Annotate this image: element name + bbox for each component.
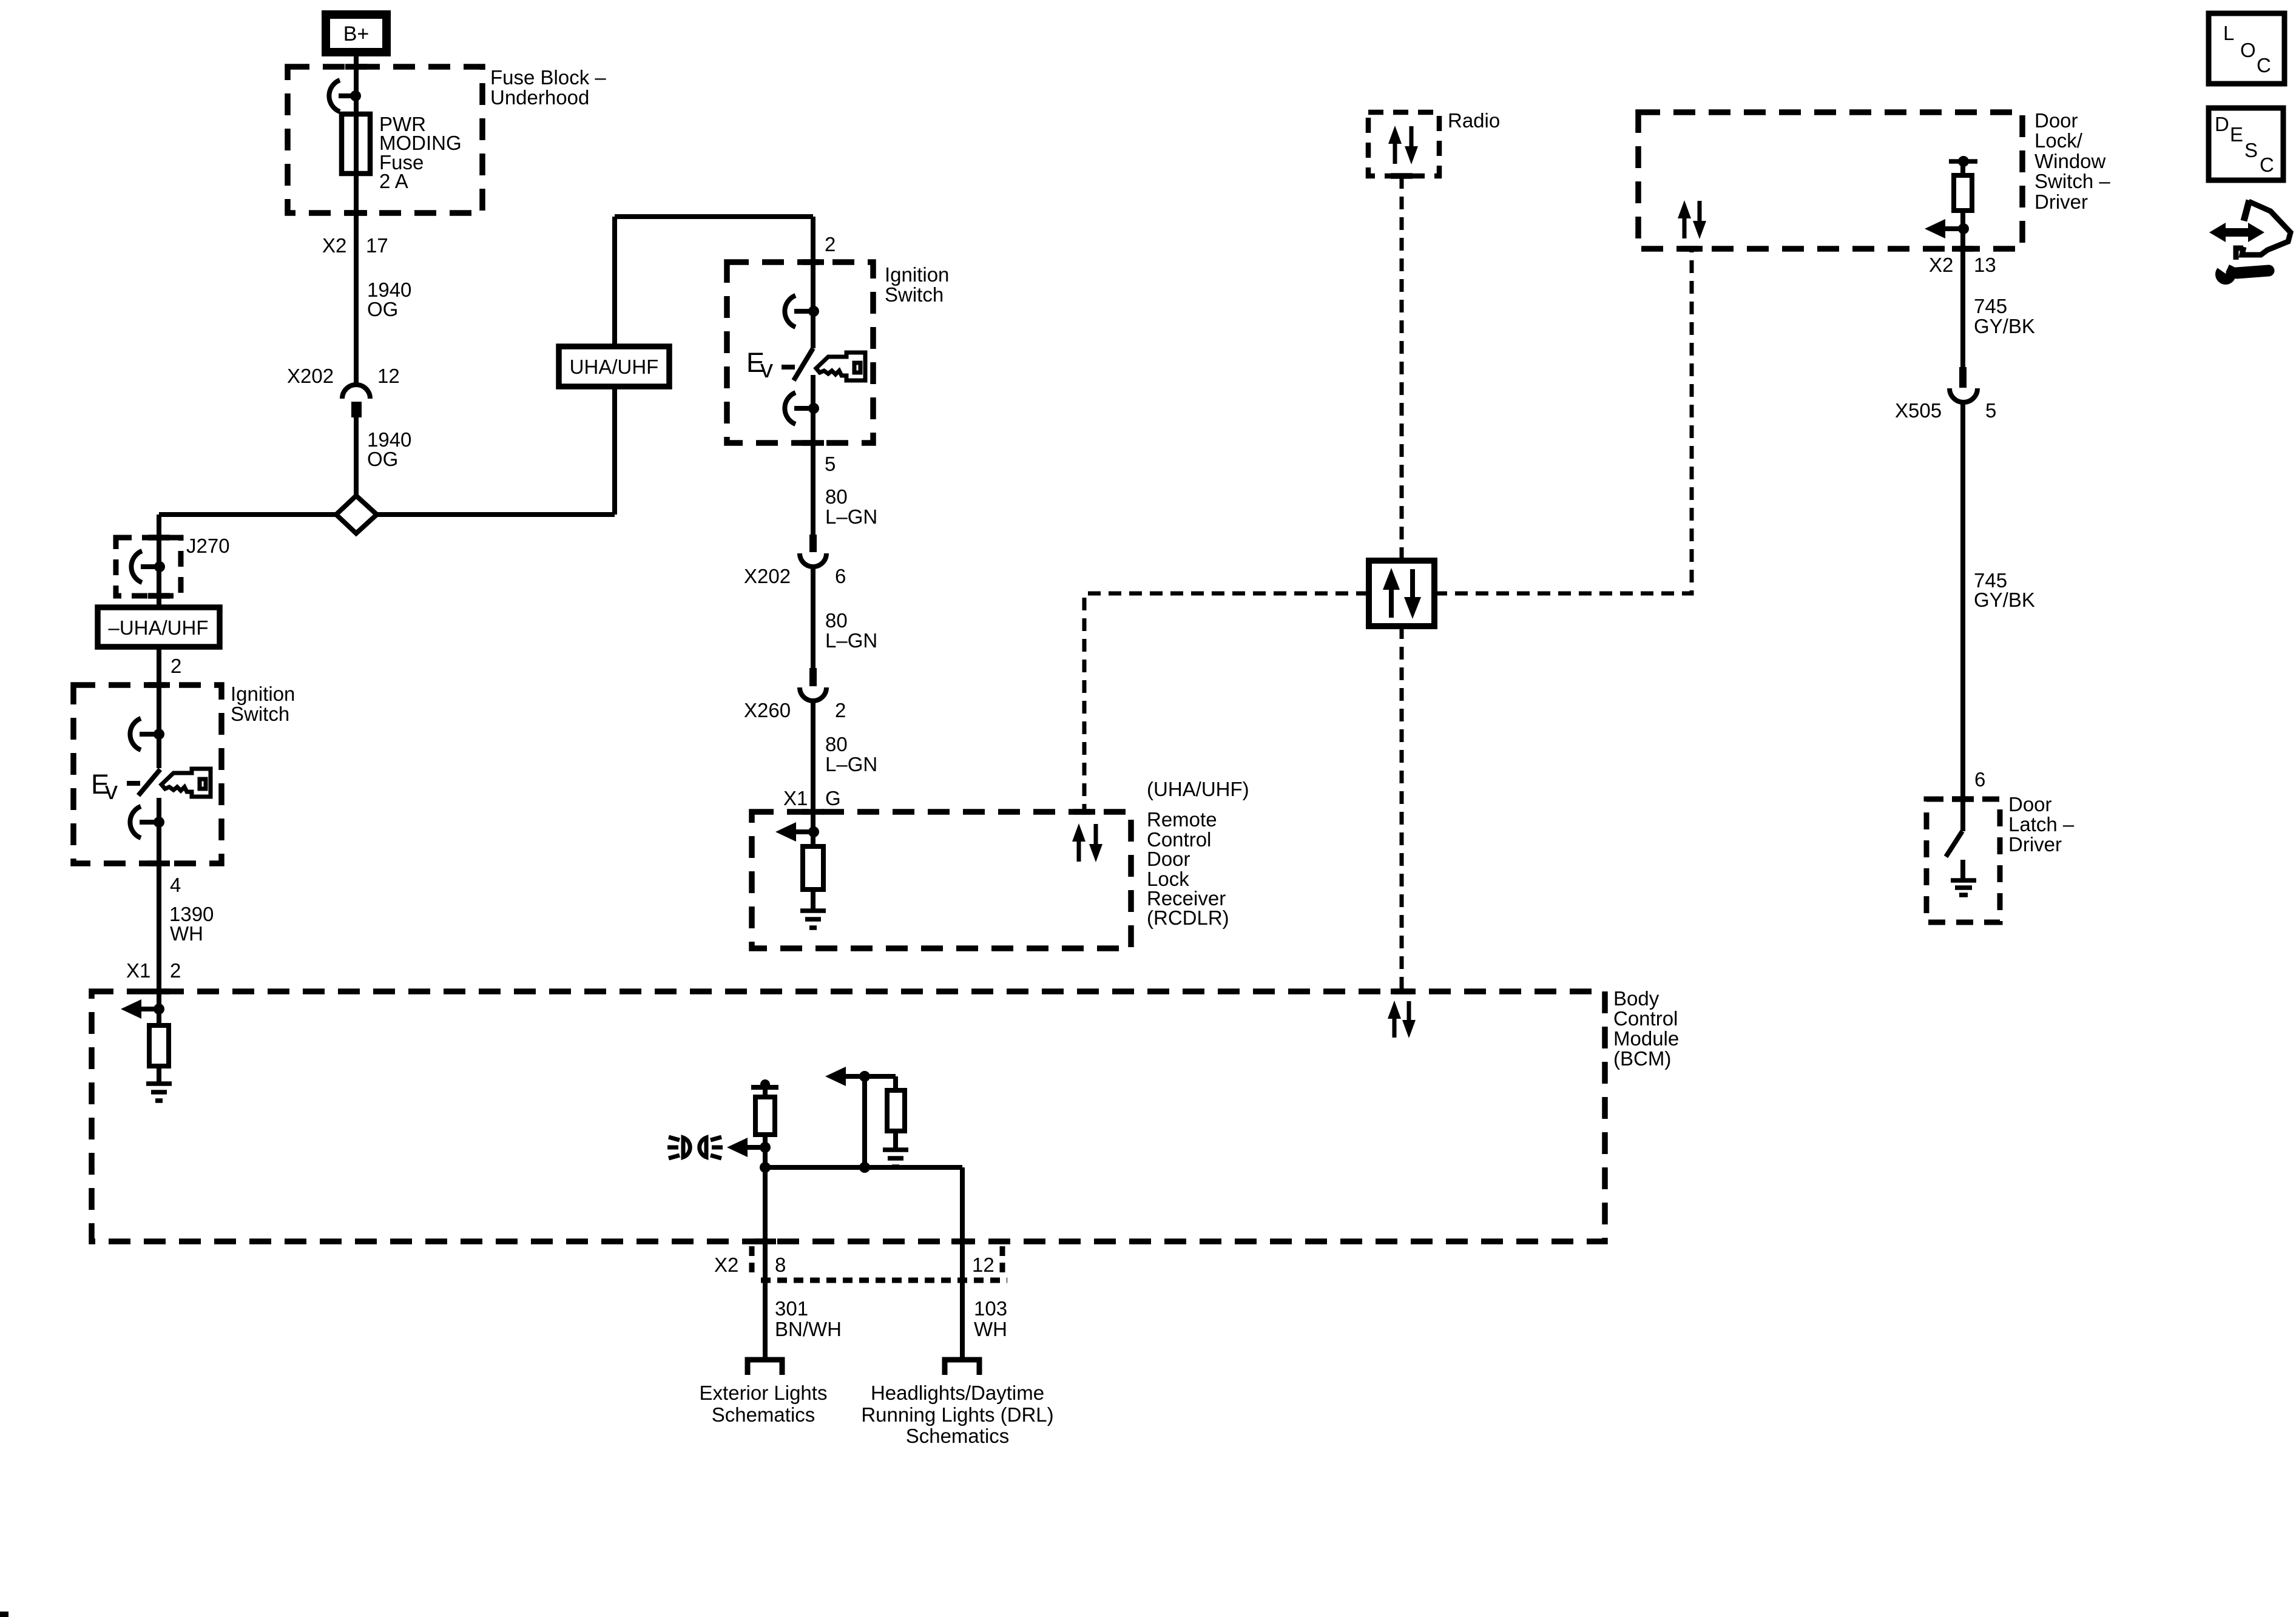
wire ignition 5 to X202 [811, 375, 815, 535]
svg-text:Door: Door [2034, 109, 2078, 132]
svg-text:WH: WH [170, 922, 203, 945]
door latch driver box [1926, 799, 2000, 922]
junction dot ignition right top [808, 306, 819, 317]
svg-text:5: 5 [1985, 399, 1996, 422]
wire ground branch top [865, 1074, 896, 1079]
wire serial hub to BCM [1400, 626, 1404, 991]
svg-text:GY/BK: GY/BK [1974, 589, 2035, 611]
bus junction dot at ground branch [859, 1162, 870, 1173]
svg-text:v: v [105, 776, 118, 805]
wire pin 8 drop [763, 1167, 768, 1359]
wire ground branch vertical [862, 1076, 867, 1167]
connector X260 pin 2 inline [809, 668, 817, 686]
svg-text:17: 17 [366, 234, 388, 257]
svg-text:L–GN: L–GN [825, 753, 877, 775]
svg-text:4: 4 [170, 874, 181, 896]
UHA/UHF option box [559, 346, 669, 387]
BCM X1-2 arrow [121, 999, 159, 1019]
Ev dash ignition left [127, 781, 140, 786]
radio box [1368, 112, 1439, 176]
svg-text:(RCDLR): (RCDLR) [1147, 906, 1229, 929]
connector X202 pin 12 inline (female above male) [342, 385, 370, 399]
wire X505 to door latch [1960, 401, 1965, 831]
terminal clip ignition right top [785, 295, 813, 327]
wire RCDLR resistor to ground [811, 890, 815, 910]
wire door lock switch to X505 [1960, 211, 1965, 367]
bulb branch resistor [755, 1097, 775, 1135]
wire serial hub to RCDLR [1084, 593, 1369, 812]
B+ power box [326, 15, 387, 52]
junction dot ignition right bottom [808, 403, 819, 414]
RCDLR internal arrow [775, 822, 814, 842]
svg-text:Radio: Radio [1448, 109, 1500, 132]
svg-text:301: 301 [775, 1297, 808, 1320]
ground branch resistor [887, 1090, 905, 1131]
svg-text:O: O [2240, 39, 2256, 61]
wire into right ignition switch [811, 217, 815, 348]
body control module box [92, 991, 1605, 1241]
ground branch ground symbol [883, 1150, 908, 1167]
svg-text:2: 2 [171, 655, 181, 677]
terminal clip in fuse block [329, 80, 356, 112]
svg-text:X505: X505 [1895, 399, 1942, 422]
svg-text:Remote: Remote [1147, 808, 1217, 831]
bulb branch junction dot [760, 1142, 771, 1153]
minus UHA/UHF option box [98, 607, 220, 647]
bulb branch top terminal dot [760, 1079, 770, 1089]
svg-text:WH: WH [974, 1318, 1007, 1340]
svg-text:OG: OG [367, 448, 398, 470]
svg-text:X260: X260 [744, 699, 791, 721]
wire door latch blade [1946, 831, 1962, 857]
svg-text:Switch: Switch [231, 703, 289, 725]
svg-text:2: 2 [825, 233, 836, 255]
door lock window switch driver box [1638, 112, 2022, 249]
svg-text:E: E [2230, 123, 2243, 146]
svg-text:B+: B+ [343, 22, 370, 46]
svg-text:Driver: Driver [2034, 191, 2088, 213]
wire B+ to fuse block [354, 55, 359, 385]
dashed component boxes [73, 67, 2022, 1241]
wire door latch ground stub [1960, 860, 1965, 879]
connector X505 pin 5 inline [1959, 367, 1967, 388]
junction dot fuse clip [350, 90, 361, 101]
door lock switch arrow [1925, 219, 1963, 238]
svg-text:Module: Module [1613, 1027, 1679, 1050]
svg-text:J270: J270 [186, 535, 230, 557]
svg-text:L–GN: L–GN [825, 629, 877, 652]
svg-text:OG: OG [367, 298, 398, 320]
RCDLR internal resistor [803, 846, 823, 890]
svg-text:6: 6 [1974, 768, 1985, 791]
svg-text:2: 2 [835, 699, 846, 721]
RCDLR ground [800, 911, 826, 928]
svg-text:Driver: Driver [2008, 833, 2062, 856]
fuse PWR MODING 2A [342, 114, 370, 174]
svg-text:BN/WH: BN/WH [775, 1318, 842, 1340]
off-page connector exterior lights [748, 1360, 782, 1375]
Ev dash ignition right [782, 365, 795, 370]
svg-text:Schematics: Schematics [712, 1403, 815, 1426]
ignition switch box (left) [73, 685, 221, 863]
BCM left ground [146, 1084, 172, 1101]
BCM X1-2 junction dot [154, 1004, 164, 1014]
svg-text:X202: X202 [744, 565, 791, 587]
svg-text:2: 2 [170, 959, 181, 982]
svg-text:103: 103 [974, 1297, 1007, 1320]
svg-text:80: 80 [825, 609, 848, 632]
junction dot ignition left bottom [154, 817, 164, 828]
wire horizontal bus through diamond [159, 512, 615, 517]
svg-text:Lock/: Lock/ [2034, 129, 2083, 152]
terminal clip J270 [131, 551, 159, 582]
svg-text:Window: Window [2034, 150, 2106, 172]
svg-text:v: v [760, 354, 773, 383]
off-page connector headlights DRL [945, 1360, 979, 1375]
wire pin 12 drop [960, 1167, 965, 1359]
svg-text:X2: X2 [322, 234, 346, 257]
svg-text:–UHA/UHF: –UHA/UHF [108, 616, 208, 639]
svg-text:5: 5 [825, 453, 836, 475]
wire bulb branch vertical [763, 1087, 768, 1167]
svg-text:GY/BK: GY/BK [1974, 315, 2035, 337]
wire serial radio drop [1400, 176, 1404, 561]
svg-text:Ignition: Ignition [231, 683, 295, 705]
svg-text:UHA/UHF: UHA/UHF [570, 356, 659, 378]
wire bulb branch top terminal [751, 1085, 778, 1090]
bus junction dot at bulb drop [760, 1162, 771, 1173]
svg-text:80: 80 [825, 733, 848, 755]
ignition switch box (right) [727, 262, 873, 443]
svg-text:8: 8 [775, 1254, 786, 1276]
wire BCM output bus [765, 1165, 962, 1170]
svg-text:Exterior Lights: Exterior Lights [700, 1382, 828, 1404]
svg-text:Fuse Block –: Fuse Block – [490, 66, 606, 89]
wire door lock switch resistor branch [1960, 161, 1965, 175]
wire ground branch resistor to ground [893, 1131, 898, 1149]
J270 splice pack box [116, 538, 181, 596]
edge tick marks where wires cross dashed borders [148, 67, 1974, 1241]
svg-text:Latch –: Latch – [2008, 813, 2075, 836]
svg-text:Switch: Switch [885, 283, 944, 306]
svg-text:L: L [2223, 22, 2234, 44]
svg-text:Control: Control [1613, 1007, 1678, 1030]
svg-text:D: D [2215, 113, 2229, 135]
wire ignition switch blade (left) [138, 769, 160, 795]
DESC reference box [2209, 108, 2283, 180]
svg-text:Headlights/Daytime: Headlights/Daytime [871, 1382, 1044, 1404]
wire UHA/UHF riser [612, 217, 617, 515]
serial data arrows in BCM [1388, 1001, 1416, 1038]
door lock switch junction dot [1958, 223, 1969, 234]
wire X202 to X260 [811, 566, 815, 668]
svg-text:C: C [2260, 154, 2274, 176]
RCDLR internal junction dot [808, 826, 819, 837]
diamond splice J-junction [336, 496, 377, 533]
wire BCM left resistor leads [157, 1066, 161, 1082]
svg-text:745: 745 [1974, 295, 2007, 317]
ground branch arrow [825, 1067, 865, 1086]
connector X202 pin 6 inline (male above female) [809, 535, 817, 552]
wire serial hub to door lock switch [1434, 249, 1692, 593]
serial data dashed lines [1084, 176, 1692, 991]
page corner mark [0, 1612, 8, 1617]
svg-text:2 A: 2 A [379, 170, 408, 192]
terminal clip ignition left top [130, 718, 158, 750]
svg-text:13: 13 [1974, 254, 1996, 276]
svg-text:Ignition: Ignition [885, 263, 949, 286]
svg-text:C: C [2257, 54, 2271, 76]
svg-text:(BCM): (BCM) [1613, 1047, 1671, 1070]
terminal clip ignition left bottom [130, 806, 158, 838]
svg-text:Schematics: Schematics [906, 1425, 1010, 1447]
svg-text:G: G [825, 787, 841, 809]
svg-text:X2: X2 [714, 1254, 738, 1276]
serial data hub box [1369, 561, 1434, 626]
svg-text:6: 6 [835, 565, 846, 587]
svg-text:S: S [2244, 139, 2258, 161]
wire ignition to BCM [157, 798, 161, 1025]
diagnostic hand tool icon [2209, 200, 2291, 285]
ground branch junction dot [859, 1071, 870, 1082]
door latch ground [1951, 880, 1976, 895]
svg-text:X1: X1 [126, 959, 150, 982]
wire X260 to RCDLR pin G [811, 701, 815, 846]
X2 harness connector brackets at BCM bottom [752, 1246, 1007, 1280]
bulb branch arrow [727, 1138, 765, 1157]
svg-text:L–GN: L–GN [825, 505, 877, 528]
wire ground branch to resistor [893, 1076, 898, 1090]
junction dot J270 [154, 561, 165, 572]
serial data arrows in radio [1388, 126, 1418, 164]
svg-text:Switch –: Switch – [2034, 170, 2110, 192]
RCDLR box [752, 812, 1131, 948]
wire left branch down to ignition switch [157, 515, 161, 768]
LOC reference box [2209, 13, 2284, 84]
svg-text:X202: X202 [287, 365, 334, 387]
wire top bus to ignition switch 2 [615, 214, 813, 219]
wire ignition switch blade (right) [794, 348, 813, 380]
terminal clip ignition right bottom [785, 393, 813, 424]
svg-text:80: 80 [825, 485, 848, 508]
svg-text:Running Lights (DRL): Running Lights (DRL) [861, 1403, 1053, 1426]
svg-text:Door: Door [2008, 793, 2052, 815]
svg-text:(UHA/UHF): (UHA/UHF) [1147, 778, 1249, 800]
serial data arrows in RCDLR [1072, 823, 1102, 862]
door lock switch resistor top terminal [1949, 156, 1977, 167]
junction dot ignition left top [154, 729, 164, 740]
svg-text:X1: X1 [783, 787, 808, 809]
key symbol ignition right [816, 353, 865, 380]
key symbol ignition left [161, 769, 211, 797]
door lock switch resistor [1954, 175, 1972, 211]
BCM left resistor [149, 1025, 169, 1066]
svg-text:12: 12 [377, 365, 400, 387]
wire fuse to diamond splice [354, 416, 359, 498]
svg-text:Body: Body [1613, 987, 1660, 1010]
svg-text:Underhood: Underhood [490, 86, 589, 109]
svg-text:12: 12 [972, 1254, 994, 1276]
svg-text:Door: Door [1147, 848, 1190, 870]
headlamp bulb icon [667, 1137, 723, 1158]
serial data arrows in door lock switch [1678, 200, 1706, 239]
fuse block underhood box [288, 67, 482, 213]
svg-text:X2: X2 [1929, 254, 1953, 276]
